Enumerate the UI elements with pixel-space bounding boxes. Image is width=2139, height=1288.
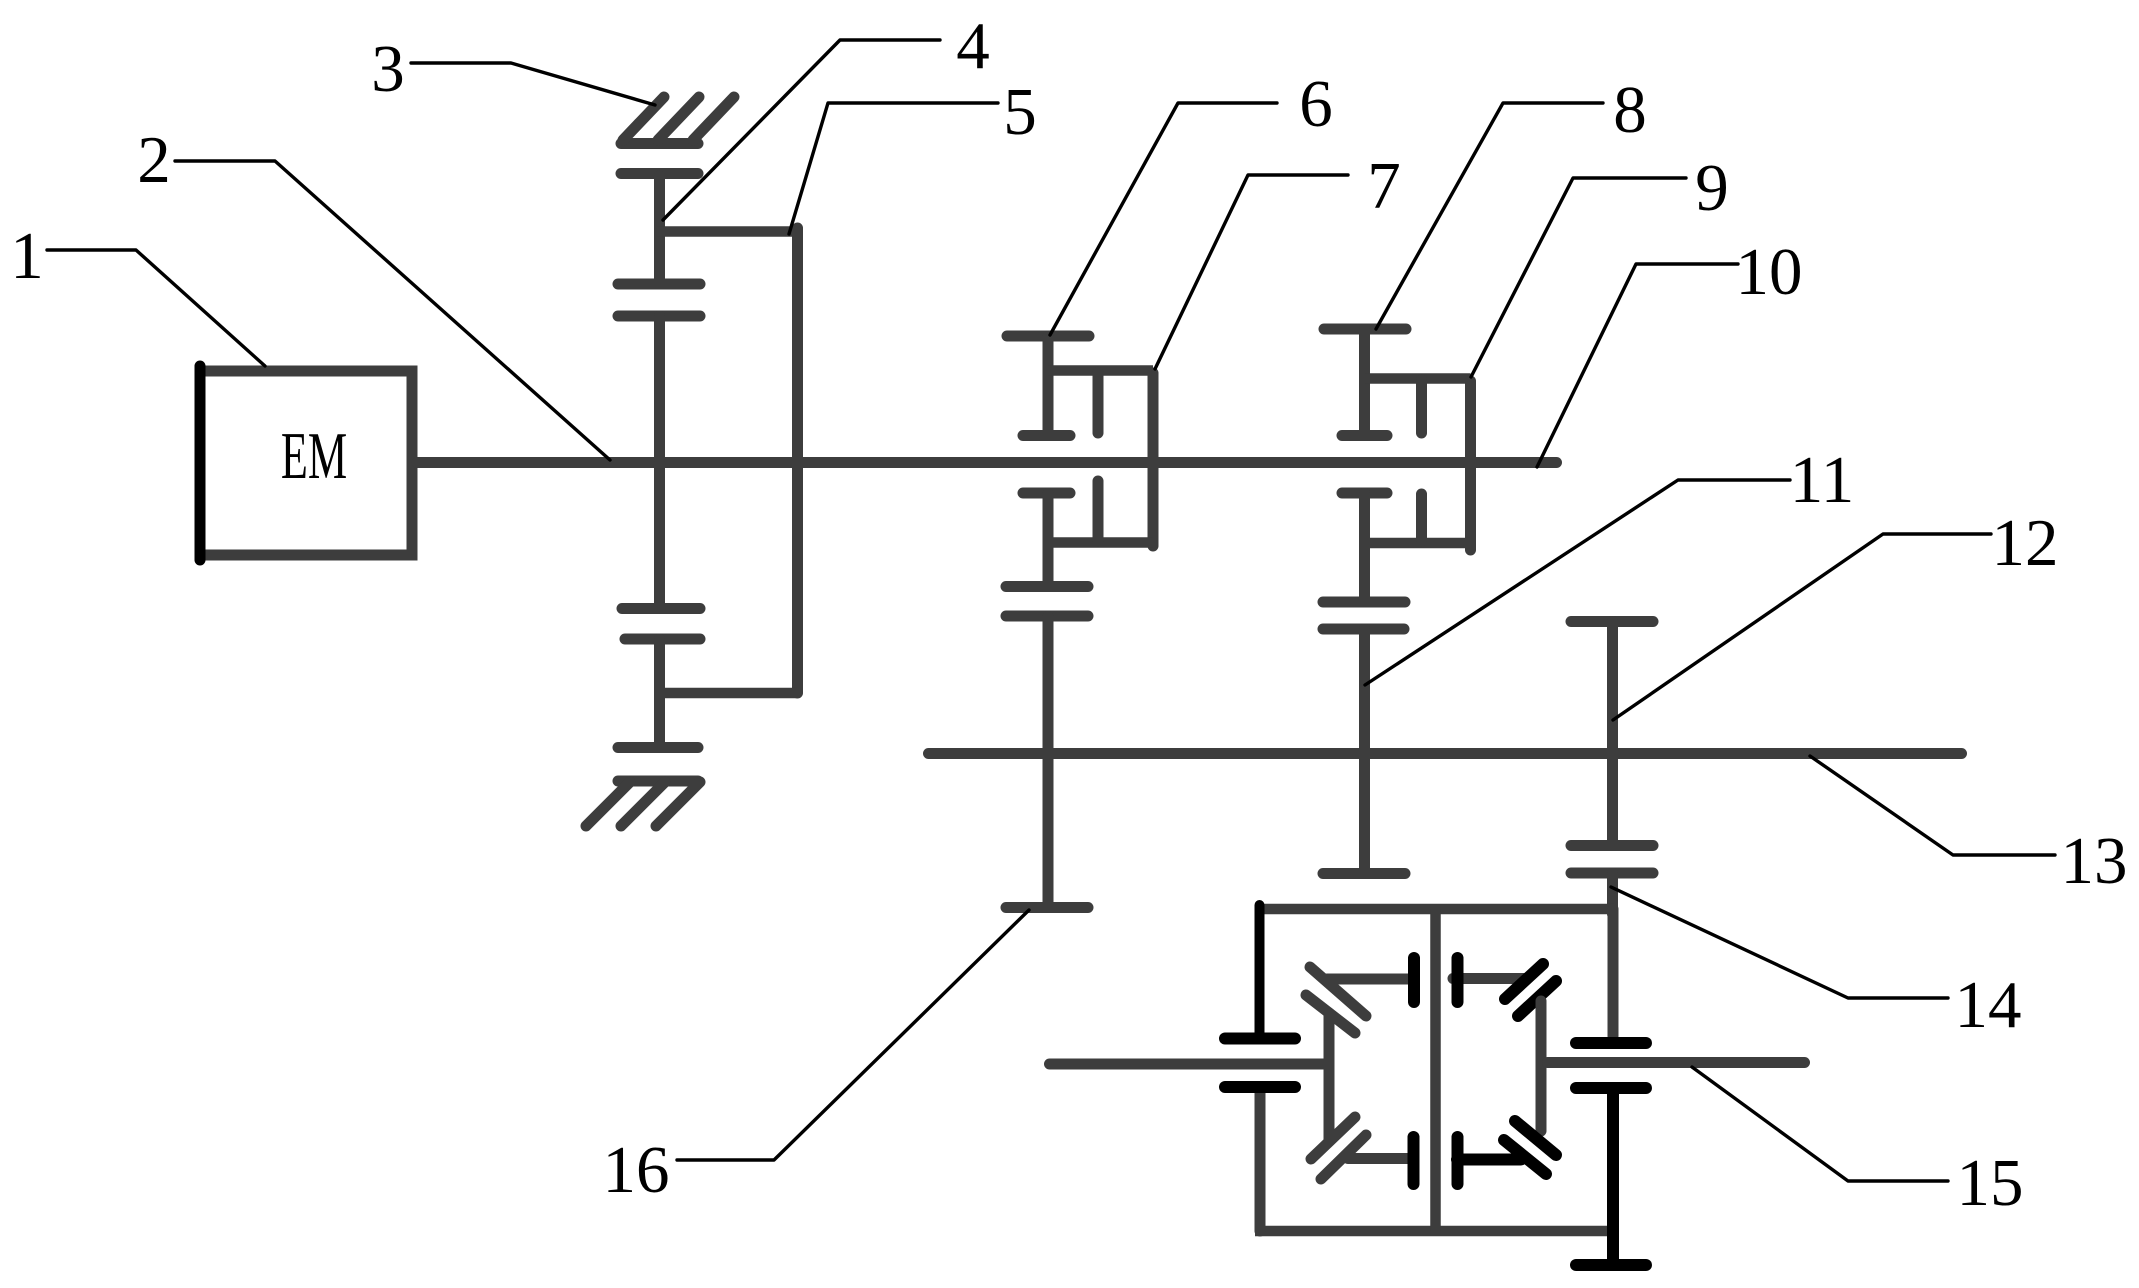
left-top bevel hatch 2	[1306, 995, 1355, 1033]
svg-text:3: 3	[371, 32, 405, 106]
gear 16 bottom cap	[1006, 902, 1088, 913]
synchro fork stub upper (9)	[1416, 380, 1427, 433]
svg-text:8: 8	[1613, 73, 1647, 147]
gear 11 bottom cap	[1323, 868, 1405, 879]
differential housing bottom	[1255, 1226, 1608, 1237]
svg-text:EM: EM	[281, 419, 347, 493]
housing left wall upper (black)	[1255, 905, 1265, 1036]
gear 2 stem wire to shaft	[654, 316, 665, 462]
bottom gear cap	[618, 742, 698, 753]
left-bottom bevel hatch 1	[1311, 1117, 1355, 1159]
gear 6 top bar	[1007, 331, 1089, 342]
leader 1	[47, 250, 265, 366]
svg-text:14: 14	[1955, 968, 2022, 1042]
leader 4	[663, 40, 940, 220]
right-top bevel hatch 1 (black)	[1505, 964, 1543, 999]
gear below shaft cap (8/9 unit)	[1342, 488, 1387, 499]
right-top planet axis	[1453, 973, 1526, 984]
leader 5	[789, 103, 998, 234]
left-bottom pinion cap (black)	[1408, 1137, 1420, 1184]
svg-text:11: 11	[1790, 443, 1855, 517]
left-top bevel hatch 1	[1310, 967, 1366, 1016]
differential housing middle wall	[1430, 909, 1441, 1231]
left-top pinion cap (black)	[1408, 958, 1420, 1002]
svg-text:9: 9	[1695, 151, 1729, 225]
right side gear bar top (black)	[1576, 1037, 1646, 1049]
gear 6 lower cap	[1023, 430, 1070, 441]
stem wire to housing	[1607, 873, 1618, 914]
leader 8	[1376, 103, 1603, 329]
gear 8 lower cap	[1342, 430, 1387, 441]
leader 7	[1155, 175, 1348, 369]
right-bottom bevel hatch 2 (black)	[1504, 1140, 1546, 1174]
left-bottom planet axis	[1348, 1153, 1408, 1164]
right-bottom planet axis (black)	[1457, 1154, 1521, 1166]
gear 14 ring bar	[1571, 868, 1653, 879]
leader 10	[1537, 264, 1738, 467]
brake gear cap (element 4 top)	[621, 168, 698, 179]
leader 3	[411, 63, 655, 105]
main input shaft (element 2)	[417, 457, 1557, 468]
gear 12 lower mesh bar	[1571, 840, 1653, 851]
gear below shaft cap (6/7 unit)	[1023, 488, 1070, 499]
svg-text:10: 10	[1736, 235, 1803, 309]
right side gear bar bottom (black)	[1576, 1082, 1646, 1094]
synchronizer frame (element 9)	[1365, 379, 1471, 551]
mesh bar (element 5 lower)	[622, 603, 700, 614]
svg-text:12: 12	[1992, 506, 2059, 580]
right-bottom pinion cap (black)	[1452, 1137, 1464, 1184]
synchro fork stub lower (9)	[1416, 494, 1427, 541]
gear 16 stem wire through countershaft	[1043, 616, 1054, 908]
leader 12	[1613, 534, 1991, 720]
mesh bar partner	[625, 634, 700, 645]
left inner bevel line	[1324, 1013, 1335, 1141]
EM motor box U1	[200, 366, 412, 560]
mesh bar upper (gear on lay line)	[1006, 581, 1088, 592]
right wall lower / output stem (black)	[1607, 1088, 1619, 1265]
leader 16	[677, 910, 1029, 1160]
synchro fork stub lower	[1093, 481, 1104, 541]
countershaft (element 13)	[929, 748, 1962, 759]
left-top planet axis	[1327, 974, 1408, 985]
right inner bevel line	[1536, 1001, 1547, 1131]
right-bottom bevel hatch 1 (black)	[1515, 1121, 1556, 1155]
stem wire down	[1359, 493, 1370, 602]
svg-text:15: 15	[1957, 1146, 2024, 1220]
leader 13	[1810, 756, 2055, 855]
synchronizer frame (element 7)	[1048, 371, 1153, 547]
svg-text:6: 6	[1299, 67, 1333, 141]
svg-text:16: 16	[603, 1133, 670, 1207]
gear 8 stem wire	[1359, 329, 1370, 436]
leader 14	[1611, 887, 1948, 998]
differential housing top	[1255, 904, 1613, 915]
gear 11 stem wire through countershaft	[1359, 629, 1370, 874]
leader 2	[175, 161, 610, 460]
svg-text:13: 13	[2061, 824, 2128, 898]
mesh bar upper (element 4)	[618, 279, 700, 290]
right axle (element 15)	[1548, 1057, 1805, 1068]
right-top bevel hatch 2 (black)	[1518, 981, 1556, 1016]
leader 9	[1471, 178, 1686, 377]
svg-text:1: 1	[10, 219, 44, 293]
svg-text:4: 4	[956, 9, 990, 83]
brake stem wire	[654, 176, 665, 281]
stem through frame bottom wire	[654, 639, 665, 748]
svg-text:2: 2	[137, 123, 171, 197]
svg-text:5: 5	[1003, 75, 1037, 149]
output end cap (black)	[1576, 1259, 1646, 1271]
left-bottom bevel hatch 2	[1321, 1135, 1366, 1179]
carrier frame (element 5)	[657, 228, 798, 693]
mesh bar upper (element 10 gear)	[1323, 597, 1405, 608]
stem wire down	[1043, 493, 1054, 587]
leader 11	[1365, 480, 1790, 685]
housing left wall lower	[1255, 1089, 1266, 1231]
gear 12 top bar	[1571, 616, 1653, 627]
gear 12 stem wire	[1607, 622, 1618, 846]
left side gear bar bottom (black)	[1225, 1081, 1295, 1093]
synchro fork stub upper	[1093, 372, 1104, 433]
ground hatch top (element 3)	[621, 97, 734, 144]
mesh bar lower (element 11 gear)	[1323, 624, 1404, 635]
leader 15	[1692, 1067, 1948, 1181]
left side gear bar top (black)	[1225, 1033, 1295, 1045]
svg-text:7: 7	[1367, 149, 1401, 223]
housing right wall upper	[1608, 909, 1619, 1036]
left axle	[1050, 1059, 1330, 1070]
ground hatch bottom	[586, 781, 700, 826]
gear 6 stem wire	[1043, 336, 1054, 436]
right-top pinion cap (black)	[1452, 958, 1464, 1002]
mesh bar lower (gear 16 partner)	[1006, 611, 1088, 622]
sun stem below shaft wire	[654, 462, 665, 609]
gear 8 top bar	[1324, 324, 1406, 335]
leader 6	[1050, 103, 1277, 335]
mesh bar lower (element 2 gear)	[618, 311, 700, 322]
